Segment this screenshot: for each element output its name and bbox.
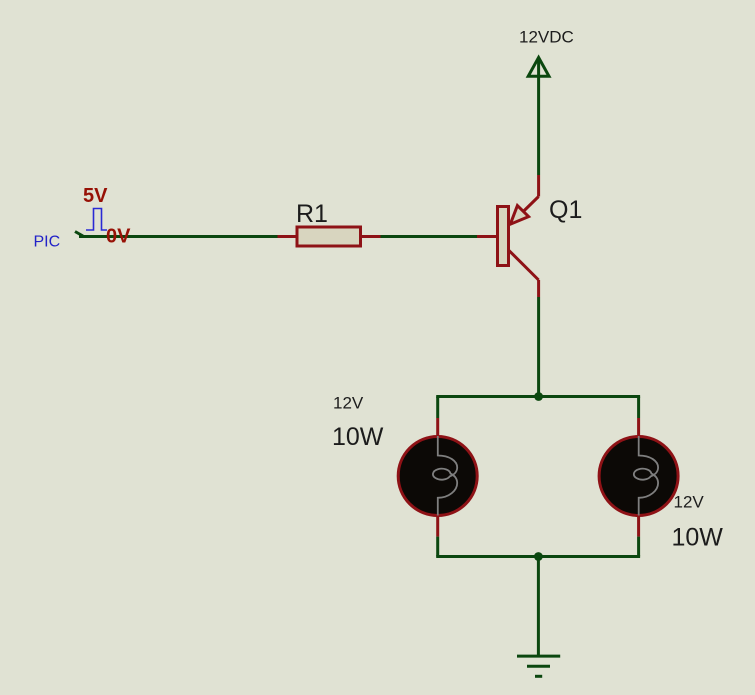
base bar	[498, 207, 509, 266]
svg-text:PIC: PIC	[34, 234, 61, 251]
filament	[433, 436, 457, 516]
collector diagonal	[509, 250, 539, 280]
wire Q1 collector to top rail	[537, 297, 540, 397]
wire stub at PIC terminal	[75, 232, 83, 237]
wire R1 to Q1 base	[381, 235, 478, 238]
top pin	[637, 418, 640, 437]
wire top rail to left lamp	[436, 397, 439, 419]
filament	[634, 436, 658, 516]
svg-text:Q1: Q1	[549, 196, 582, 224]
left pin	[278, 235, 298, 238]
body	[297, 227, 361, 246]
collector pin	[537, 280, 540, 297]
lamp L2	[599, 418, 678, 537]
wire right lamp to bottom rail	[637, 537, 640, 557]
wire power to Q1 emitter	[537, 77, 540, 176]
wire to ground	[537, 557, 540, 657]
junction top	[534, 392, 543, 401]
svg-text:12VDC: 12VDC	[519, 28, 574, 47]
svg-text:12V: 12V	[674, 493, 705, 512]
emitter diagonal	[511, 197, 539, 224]
svg-text:5V: 5V	[83, 185, 108, 207]
svg-text:10W: 10W	[332, 423, 384, 451]
emitter pin	[537, 175, 540, 197]
wire bottom rail	[436, 555, 640, 558]
bottom pin	[637, 516, 640, 537]
transistor Q1 (PNP)	[477, 175, 539, 297]
pulse generator symbol	[86, 209, 107, 231]
junction bottom	[534, 552, 543, 561]
wire left lamp to bottom rail	[436, 537, 439, 557]
lamp L1	[398, 418, 477, 537]
bulb	[398, 437, 477, 516]
right pin	[361, 235, 381, 238]
wire PIC to R1	[79, 235, 278, 238]
base pin	[477, 235, 498, 238]
top pin	[436, 418, 439, 437]
bulb	[599, 437, 678, 516]
bottom pin	[436, 516, 439, 537]
power symbol 12VDC arrow	[528, 58, 549, 78]
wire top rail	[436, 395, 640, 398]
svg-text:12V: 12V	[333, 394, 364, 413]
ground	[517, 656, 560, 676]
svg-text:10W: 10W	[672, 524, 724, 552]
resistor R1	[278, 227, 381, 246]
svg-text:R1: R1	[296, 200, 328, 228]
svg-text:0V: 0V	[106, 226, 131, 248]
wire top rail to right lamp	[637, 397, 640, 419]
emitter arrow (PNP, open)	[510, 206, 528, 225]
